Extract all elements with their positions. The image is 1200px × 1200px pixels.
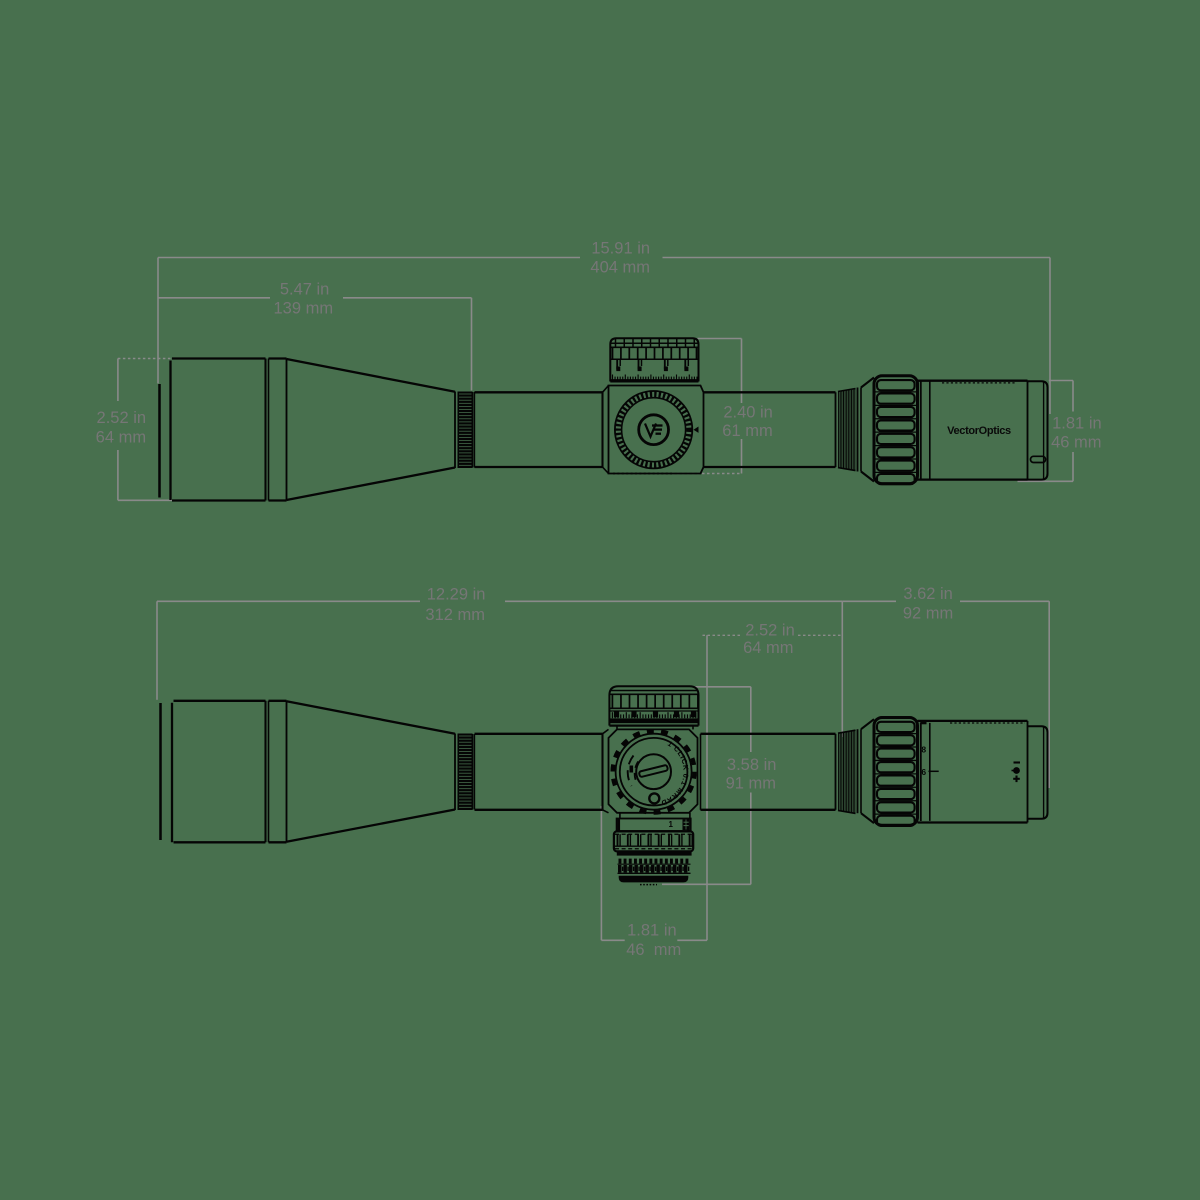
svg-text:8: 8: [921, 745, 926, 755]
svg-text:2.40 in: 2.40 in: [723, 403, 773, 421]
eyepiece end ring (top view): [1028, 381, 1048, 480]
knurled objective lock ring (bottom view): [455, 734, 475, 811]
magnification ring (top view): [874, 376, 918, 484]
objective bell body (top view): [172, 359, 287, 501]
objective bell taper cone (bottom view): [287, 701, 456, 842]
svg-text:1.81 in: 1.81 in: [1052, 415, 1102, 433]
objective bell front rim (top view): [160, 361, 171, 501]
eyepiece body (bottom view): [918, 721, 1028, 823]
dimension 1.81 in / 46 mm eyepiece diameter (top view): [1018, 381, 1102, 482]
svg-text:64 mm: 64 mm: [743, 639, 793, 657]
eyepiece end ring (bottom view): [1028, 721, 1048, 823]
knurled objective lock ring (top view): [455, 392, 475, 469]
eyepiece transition hatched cone (top view): [836, 378, 875, 482]
eyepiece body (top view): [918, 381, 1028, 480]
dimension 12.29 in / 312 mm tube length (bottom view): [157, 586, 842, 737]
svg-text:15.91 in: 15.91 in: [591, 240, 650, 258]
adjustment pointer on block edge (top view): [694, 427, 699, 433]
windage spacer band (bottom view): [617, 852, 692, 856]
elevation turret cap (top view): [610, 338, 698, 381]
eyepiece collar (top view): [921, 381, 930, 480]
svg-text:6: 6: [921, 767, 926, 777]
svg-text:139 mm: 139 mm: [273, 300, 333, 318]
windage knurled grip ring (bottom view): [614, 831, 693, 851]
svg-text:1.81 in: 1.81 in: [627, 922, 677, 940]
svg-text:VectorOptics: VectorOptics: [947, 425, 1011, 437]
svg-text:1: 1: [668, 820, 673, 829]
parallax knob (bottom view, upper side): [609, 686, 698, 725]
svg-text:404 mm: 404 mm: [590, 259, 650, 277]
turret housing block (top view): [603, 386, 704, 474]
svg-text:64 mm: 64 mm: [96, 429, 146, 447]
svg-text:5.47 in: 5.47 in: [280, 280, 330, 298]
dimension 3.62 in / 92 mm eyepiece length (bottom view): [842, 585, 1049, 788]
dimension 15.91 in / 404 mm overall length (top view): [158, 240, 1050, 415]
objective bell body (bottom view): [174, 701, 287, 843]
parallax knob neck (bottom view): [617, 726, 693, 730]
main tube right section (top view): [704, 392, 836, 467]
svg-text:3.58 in: 3.58 in: [727, 756, 777, 774]
objective bell front rim (bottom view): [161, 703, 173, 843]
svg-text:46 mm: 46 mm: [1051, 433, 1101, 451]
elevation turret dial seen from above (bottom view): [613, 731, 695, 813]
eyepiece collar (bottom view): [921, 723, 930, 822]
fast focus +/- markings (bottom view): [1012, 763, 1021, 783]
dimension 2.52 in / 64 mm (bottom view, dotted): [703, 621, 843, 940]
magnification ring (bottom view): [874, 718, 918, 826]
svg-text:2.52 in: 2.52 in: [745, 621, 795, 639]
Vector Optics logo emblem (top view): [639, 415, 669, 445]
dimension 1.81 in / 46 mm turret width (bottom view): [601, 806, 707, 959]
svg-text:92 mm: 92 mm: [903, 605, 953, 623]
dimension 2.52 in / 64 mm objective diameter (top view): [96, 359, 179, 501]
main tube left section (top view): [475, 392, 603, 467]
side focus housing decorative ring (top view): [615, 391, 692, 468]
dimension 2.40 in / 61 mm turret height (top view): [672, 339, 773, 474]
dial small circle: [649, 793, 659, 803]
dial left index arcs: [628, 756, 634, 787]
svg-text:61 mm: 61 mm: [722, 422, 772, 440]
svg-text:46 mm: 46 mm: [626, 941, 681, 959]
svg-text:3.62 in: 3.62 in: [903, 585, 953, 603]
windage tick bands (bottom view): [618, 859, 691, 874]
objective bell taper cone (top view): [287, 359, 456, 500]
dimension 5.47 in / 139 mm objective length (top view): [158, 280, 472, 390]
dimension 3.58 in / 91 mm turret span (bottom view): [662, 687, 776, 885]
svg-text:312 mm: 312 mm: [425, 606, 485, 624]
windage bottom cap (bottom view): [619, 876, 689, 885]
svg-text:12.29 in: 12.29 in: [427, 586, 486, 604]
turret housing block (bottom view): [603, 729, 701, 812]
svg-text:91 mm: 91 mm: [726, 775, 776, 793]
main tube left section (bottom view): [475, 734, 603, 810]
screw slot: [639, 765, 668, 777]
eyepiece transition hatched cone (bottom view): [836, 719, 875, 823]
windage turret (bottom view, lower side): [617, 813, 691, 831]
svg-text:2.52 in: 2.52 in: [97, 409, 147, 427]
magnification index numbers (bottom view): [921, 721, 939, 777]
main tube right section (bottom view): [701, 734, 836, 810]
